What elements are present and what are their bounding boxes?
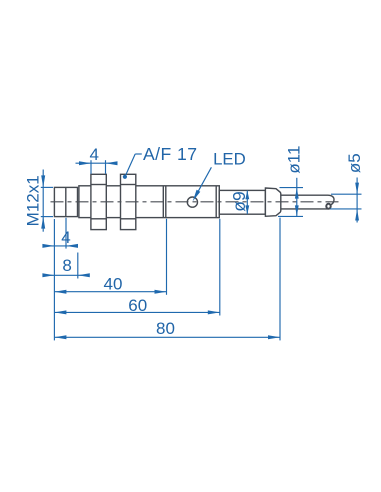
cable tail (o5) (281, 195, 334, 209)
dimension 60 (54, 311, 219, 313)
extension line at 80mm (279, 218, 281, 341)
threaded barrel and housing (79, 186, 219, 218)
dimension 8 (44, 274, 87, 276)
leader dot on nut (123, 175, 127, 179)
sensor cap (sensing face) (54, 187, 77, 216)
svg-text:60: 60 (128, 296, 147, 315)
dimension 4 (nut width) (76, 160, 112, 174)
centerline axis (51, 201, 339, 203)
extension line at 40mm (166, 219, 168, 295)
hex nut 1 (91, 174, 106, 229)
svg-text:8: 8 (62, 256, 71, 275)
dimension 80 (54, 336, 280, 338)
leader A/F 17 (125, 154, 142, 176)
svg-text:4: 4 (61, 228, 70, 247)
leader LED (198, 167, 211, 191)
svg-text:LED: LED (213, 149, 246, 168)
svg-text:40: 40 (104, 274, 123, 293)
svg-text:80: 80 (156, 319, 175, 338)
extension line at 60mm (219, 219, 221, 316)
dimension o5 (330, 178, 362, 223)
extension line at 8mm (77, 253, 79, 279)
dimension 4 (tip) (44, 245, 75, 247)
dimension 40 (54, 291, 166, 293)
rear barrel (o9 section) (219, 190, 265, 214)
dimension o9 (246, 190, 248, 214)
LED leader arrowhead (193, 190, 201, 202)
svg-text:4: 4 (89, 145, 98, 164)
svg-text:ø11: ø11 (285, 146, 304, 174)
svg-text:A/F 17: A/F 17 (143, 144, 198, 164)
cable end ellipse (326, 204, 330, 209)
svg-text:ø5: ø5 (345, 153, 364, 173)
connector bush (o11) (265, 188, 280, 216)
svg-text:ø9: ø9 (229, 191, 249, 211)
dimension M12x1 arrows (41, 175, 45, 228)
extension line at sensing face (53, 219, 55, 340)
hex nut 2 (121, 174, 136, 229)
dimension M12x1 extension lines (41, 170, 53, 232)
dimension o11 (278, 178, 303, 217)
svg-text:M12x1: M12x1 (23, 175, 42, 226)
LED window circle (187, 197, 197, 207)
extension line at 4mm (65, 218, 67, 249)
